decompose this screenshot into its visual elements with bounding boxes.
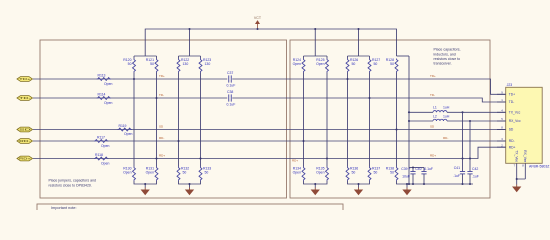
svg-text:TD+: TD+ (430, 74, 436, 78)
pin 5 RX_Vcc (497, 120, 506, 122)
svg-text:Open: Open (124, 132, 132, 136)
wire L1 input (409, 111, 433, 113)
wire VCT drop to R126/R127 (358, 29, 360, 56)
resistor R136 (346, 167, 349, 182)
capacitor C39 plates (410, 172, 415, 174)
node ground join 5 (406, 183, 408, 185)
wire pullup top lead x=327 (326, 56, 328, 59)
resistor R117 (94, 140, 109, 143)
wire TD+ from port to C37 (33, 78, 227, 80)
svg-text:TD-: TD- (430, 93, 435, 97)
svg-text:1uH: 1uH (443, 105, 450, 109)
svg-text:RD-: RD- (159, 136, 164, 140)
wire pullup top lead x=134 (133, 56, 135, 59)
wire column x=347.5 right box (347, 73, 349, 167)
wire C42 bottom lead (469, 174, 471, 184)
svg-text:Place capacitors,: Place capacitors, (434, 48, 461, 52)
node R135 column on RD+ (326, 157, 328, 159)
resistor R130 (133, 167, 136, 182)
wire ground stem left pair 1 (144, 184, 146, 188)
wire SD signal (33, 129, 506, 131)
wire tee R124-R125 tops (304, 55, 328, 57)
resistor R127 (368, 59, 371, 73)
svg-text:resistors close to: resistors close to (434, 57, 461, 61)
svg-text:R114: R114 (98, 92, 106, 96)
node C39 top (412, 166, 414, 168)
wire ground stem right pair 1 (314, 184, 316, 188)
node C41 on TX_Vcc (461, 111, 463, 113)
svg-text:TD+: TD+ (509, 93, 515, 97)
svg-text:Open: Open (123, 170, 131, 174)
resistor R120 (133, 59, 136, 73)
svg-text:VCT: VCT (254, 16, 262, 20)
svg-text:C42: C42 (472, 167, 478, 171)
node ground join 2 (188, 183, 190, 185)
svg-text:RX_Vee: RX_Vee (523, 150, 527, 162)
port RD- (17, 139, 33, 144)
resistor R124 (302, 59, 305, 73)
wire join R130-R131 bottoms (134, 181, 157, 184)
wire column x=327 right box (326, 73, 328, 167)
svg-text:50: 50 (374, 170, 378, 174)
svg-text:SD: SD (509, 128, 514, 132)
wire ground stem right pair 2 (358, 184, 360, 188)
wire pullup top lead x=369.5 (369, 56, 371, 59)
resistor R118 (94, 157, 109, 160)
svg-text:0.1uF: 0.1uF (227, 103, 236, 107)
resistor R131 (155, 167, 158, 182)
node R131 column on RD+ (155, 157, 157, 159)
node ground bus x=409 (408, 183, 410, 185)
svg-text:TD-: TD- (159, 93, 164, 97)
svg-text:TX_Vcc: TX_Vcc (509, 111, 521, 115)
node ground join 1 (144, 183, 146, 185)
wire L2 input (409, 120, 433, 122)
svg-text:Open: Open (104, 82, 112, 86)
resistor R128 (395, 59, 398, 73)
wire pullup top lead x=178.5 (178, 56, 180, 59)
node ground bus x=462.5 (461, 183, 463, 185)
node ground join 3 (314, 183, 316, 185)
svg-text:0.1uF: 0.1uF (424, 167, 433, 171)
node R134 column on RD- (302, 140, 304, 142)
wire RX_Vcc to pin (447, 120, 506, 122)
inductor L1 (433, 111, 447, 113)
node R132 column on RD- (177, 140, 179, 142)
svg-text:SD: SD (19, 128, 31, 132)
svg-text:1uH: 1uH (443, 115, 450, 119)
pin 8 RX_Vee (524, 163, 526, 179)
port TD+ (17, 77, 33, 82)
svg-text:Open: Open (293, 62, 301, 66)
svg-text:R118: R118 (95, 153, 103, 157)
svg-text:RD-: RD- (509, 139, 515, 143)
node R127 on TD- (368, 97, 370, 99)
svg-text:50: 50 (352, 170, 356, 174)
ground GND6 (513, 185, 520, 192)
svg-text:AFBR-5803Z: AFBR-5803Z (529, 165, 550, 169)
svg-text:50: 50 (150, 62, 154, 66)
node at RD+ crossing C42 (469, 157, 471, 159)
wire ground bus under C39-C42 (397, 181, 474, 184)
svg-text:J23: J23 (507, 83, 513, 87)
node R126 on TD+ (346, 78, 348, 80)
resistor R125 (326, 59, 329, 73)
wire join R136-R137 bottoms (348, 181, 370, 184)
inductor L2 (433, 119, 447, 121)
svg-text:C41: C41 (454, 166, 460, 170)
svg-text:C39 +: C39 + (401, 167, 410, 171)
ground GND2 (186, 188, 193, 195)
svg-text:C37: C37 (227, 71, 233, 75)
resistor R114 (97, 97, 112, 100)
svg-text:Open: Open (101, 162, 109, 166)
resistor R134 (302, 167, 305, 182)
node L2 feed (408, 120, 410, 122)
resistor R137 (368, 167, 371, 182)
resistor R119 (118, 128, 133, 131)
port SD (17, 127, 33, 132)
wire C41 bottom lead (462, 174, 464, 184)
svg-text:.1uF: .1uF (453, 174, 460, 178)
resistor R122 (177, 59, 180, 73)
wire C40 bottom lead (423, 174, 425, 184)
svg-text:TX_Vee: TX_Vee (514, 150, 518, 162)
capacitor C42 plates (467, 172, 472, 174)
node ground bus x=413 (412, 183, 414, 185)
svg-text:0.1uF: 0.1uF (227, 84, 236, 88)
svg-text:R113: R113 (98, 73, 106, 77)
svg-text:Open: Open (316, 170, 324, 174)
wire pullup top lead x=156.5 (156, 56, 158, 59)
svg-text:RD-: RD- (443, 136, 448, 140)
wire C40 top lead (423, 168, 425, 172)
resistor R121 (155, 59, 158, 73)
svg-text:inductors, and: inductors, and (434, 52, 456, 56)
svg-text:transceiver.: transceiver. (434, 62, 452, 66)
wire ground stem left pair 2 (189, 184, 191, 188)
wire Vee join to ground (517, 179, 526, 185)
ground GND4 (355, 188, 362, 195)
wire column x=156.5 left box (156, 73, 158, 167)
node R121 on TD- (155, 97, 157, 99)
svg-text:Open: Open (293, 170, 301, 174)
svg-text:10uF: 10uF (402, 174, 410, 178)
left frame box (PHY side) (40, 40, 287, 198)
resistor R138 (395, 167, 398, 182)
port TD- (17, 96, 33, 101)
node rail junction at x=315.25 (314, 28, 316, 30)
ground GND5 (403, 188, 410, 195)
wire column x=200.5 left box (200, 73, 202, 167)
wire RD- signal (33, 140, 506, 142)
port RD+ (17, 156, 33, 161)
capacitor C38 (229, 94, 232, 101)
svg-text:50: 50 (374, 62, 378, 66)
capacitor C41 plates (460, 172, 465, 174)
wire column x=396.5 right box (396, 73, 398, 167)
svg-text:50: 50 (390, 170, 394, 174)
wire tee R122-R123 tops (179, 55, 201, 57)
svg-text:resistors close to DP83420.: resistors close to DP83420. (49, 183, 92, 187)
node at RD+ crossing C41 (461, 157, 463, 159)
svg-text:Open: Open (101, 144, 109, 148)
wire VCT drop to R124/R125 (314, 29, 316, 56)
svg-text:TD-: TD- (509, 100, 515, 104)
svg-text:RD+: RD+ (509, 145, 516, 149)
node ground join 4 (357, 183, 359, 185)
node R120 on TD+ (133, 78, 135, 80)
pin 2 RD+ (497, 146, 506, 148)
svg-text:L2: L2 (433, 115, 437, 119)
wire TD- from port to C38 (33, 97, 227, 99)
pin 8 SD (497, 129, 506, 131)
wire ground stem power section (406, 184, 408, 188)
svg-text:Open: Open (316, 62, 324, 66)
resistor R126 (346, 59, 349, 73)
svg-text:Open: Open (104, 101, 112, 105)
ground GND1 (142, 188, 149, 195)
svg-text:RD-: RD- (19, 139, 31, 143)
wire cap top link (409, 167, 424, 169)
op-amp / transceiver module U23 AFBR-5803Z body (506, 87, 543, 163)
svg-text:TD+: TD+ (19, 77, 31, 81)
svg-text:Place jumpers, capacitors and: Place jumpers, capacitors and (49, 179, 97, 183)
wire C39 bottom lead (412, 174, 414, 184)
pin 1 TD- (497, 101, 506, 103)
svg-text:R119: R119 (119, 124, 127, 128)
node C42 on RX_Vcc (469, 120, 471, 122)
pin 7 TX_Vee (516, 163, 518, 179)
wire pullup top lead x=303.5 (303, 56, 305, 59)
svg-text:TD+: TD+ (159, 74, 165, 78)
svg-text:RD+: RD+ (19, 157, 31, 161)
svg-text:RD+: RD+ (292, 159, 298, 163)
svg-text:50: 50 (205, 170, 209, 174)
svg-text:L1: L1 (433, 105, 437, 109)
resistor R123 (199, 59, 202, 73)
pin 9 TD+ (497, 93, 506, 95)
svg-text:50: 50 (183, 170, 187, 174)
svg-text:.1uF: .1uF (472, 174, 479, 178)
node L1 feed (408, 111, 410, 113)
node ground bus x=424 (423, 183, 425, 185)
node VCT tap (256, 28, 258, 30)
wire column x=369.5 right box (369, 73, 371, 167)
pin 3 RD- (497, 140, 506, 142)
svg-text:50: 50 (128, 62, 132, 66)
wire C42 top lead (469, 121, 471, 172)
wire TD+ from C37 to pin (232, 79, 505, 94)
resistor R132 (177, 167, 180, 182)
resistor R135 (326, 167, 329, 182)
pin 4 TX_Vcc (497, 111, 506, 113)
bottom note box (37, 204, 343, 216)
svg-text:RD+: RD+ (159, 154, 165, 158)
wire tee to power column (397, 55, 410, 57)
node R128 column on SD (395, 128, 397, 130)
svg-text:Open: Open (146, 170, 154, 174)
svg-text:RD+: RD+ (430, 154, 436, 158)
wire TX_Vcc to pin (447, 111, 506, 113)
svg-text:Important note:: Important note: (51, 206, 77, 210)
svg-text:50: 50 (390, 62, 394, 66)
svg-text:RX_Vcc: RX_Vcc (509, 119, 521, 123)
wire VCT rail (145, 29, 396, 56)
wire power column x=409 (408, 56, 410, 185)
wire tee R126-R127 tops (348, 55, 370, 57)
node rail junction at x=189.5 (188, 28, 190, 30)
node Vee junction (516, 178, 518, 180)
node ground bus x=470 (469, 183, 471, 185)
ground GND3 (312, 188, 319, 195)
capacitor C37 (229, 75, 232, 82)
power symbol VCT (256, 21, 259, 29)
resistor R113 (97, 78, 112, 81)
wire C39 top lead (412, 168, 414, 172)
wire C41 top lead (462, 112, 464, 171)
wire tee R120-R121 tops (134, 55, 157, 57)
wire pullup top lead x=347.5 (347, 56, 349, 59)
svg-text:130: 130 (183, 62, 189, 66)
node R133 column on RD+ (199, 157, 201, 159)
svg-text:130: 130 (205, 62, 211, 66)
wire column x=303.5 right box (303, 73, 305, 167)
wire column x=178.5 left box (178, 73, 180, 167)
wire pullup top lead x=200.5 (200, 56, 202, 59)
wire VCT drop to R122/R123 (189, 29, 191, 56)
svg-text:50: 50 (352, 62, 356, 66)
right frame box (transceiver side) (290, 40, 490, 198)
resistor R133 (199, 167, 202, 182)
capacitor C40 plates (421, 172, 426, 174)
node rail junction at x=358.5 (357, 28, 359, 30)
wire RD+ signal (33, 147, 506, 158)
wire TD- from C38 to pin (232, 98, 505, 102)
wire join R132-R133 bottoms (179, 181, 201, 184)
svg-text:C40: C40 (415, 167, 421, 171)
svg-text:C38: C38 (227, 90, 233, 94)
svg-text:R117: R117 (97, 135, 105, 139)
wire column x=134 left box (133, 73, 135, 167)
svg-text:TD-: TD- (19, 96, 31, 100)
wire join R134-R135 bottoms (304, 181, 328, 184)
